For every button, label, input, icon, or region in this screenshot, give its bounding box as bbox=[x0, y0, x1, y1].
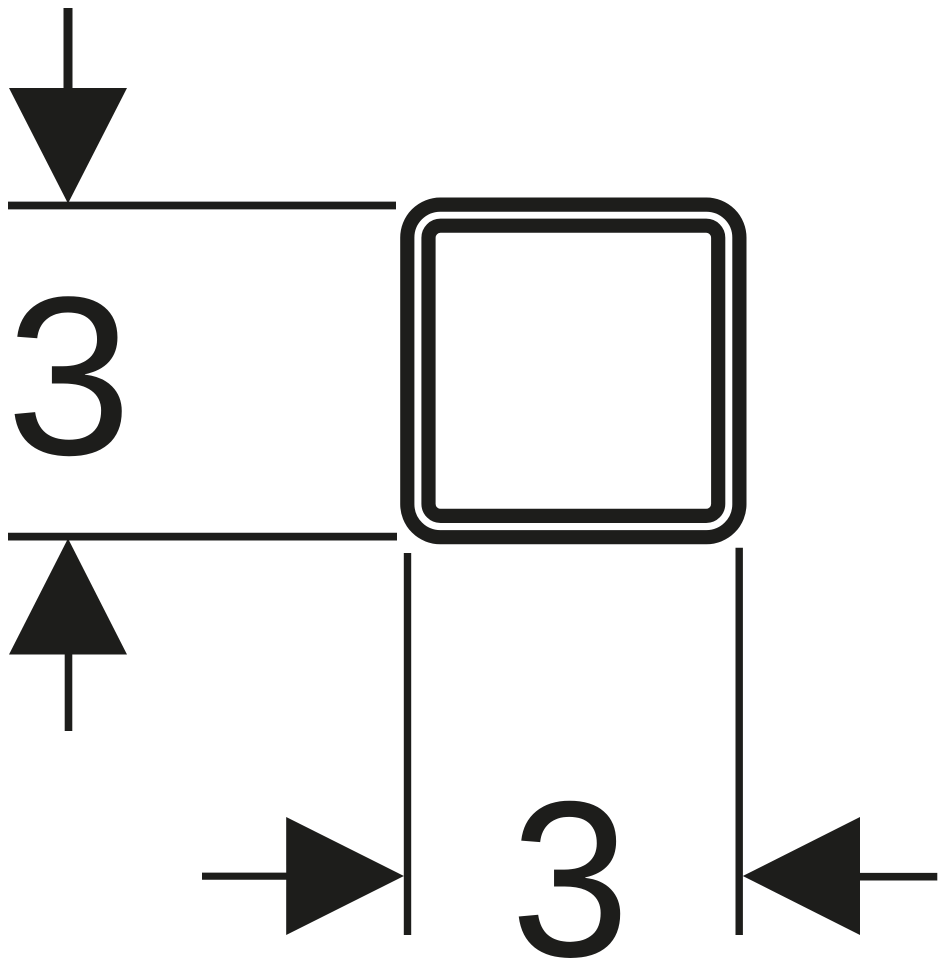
wire: top arrow stem bbox=[64, 8, 73, 95]
down arrowhead (top dimension arrow) bbox=[9, 88, 127, 204]
wire: bottom-left arrow stem bbox=[202, 873, 287, 880]
dimension line B (at tube bottom face) bbox=[8, 533, 397, 541]
extension line left (below tube) bbox=[404, 553, 411, 935]
svg-text:3: 3 bbox=[511, 756, 630, 963]
wire: bottom-right arrow stem bbox=[860, 873, 938, 881]
svg-text:3: 3 bbox=[6, 249, 132, 502]
wire: up arrow stem bbox=[65, 650, 73, 731]
square tube outer wall bbox=[407, 205, 739, 538]
square tube inner wall bbox=[429, 226, 719, 516]
right-pointing arrowhead (bottom dimension) bbox=[286, 817, 404, 935]
dimension line A (top, at tube top face) bbox=[8, 202, 396, 210]
extension line right (below tube) bbox=[736, 548, 743, 935]
up arrowhead (bottom of vertical dimension) bbox=[9, 539, 127, 655]
left-pointing arrowhead (bottom dimension) bbox=[743, 817, 860, 935]
